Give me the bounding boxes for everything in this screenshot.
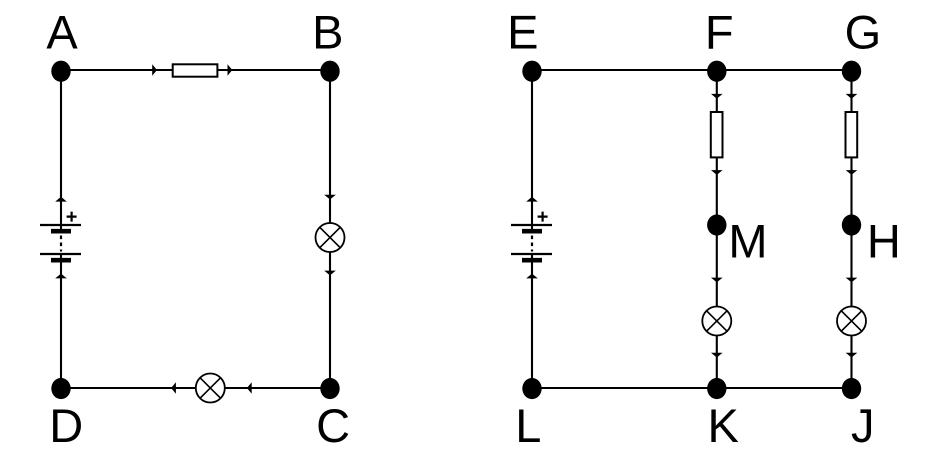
svg-text:H: H [867,215,901,268]
current arrow H-to-lamp4 [846,278,858,283]
lamp L3 (middle branch) [702,307,731,336]
svg-text:G: G [845,6,882,59]
wire battery-L left lower [531,253,533,388]
svg-text:M: M [728,215,767,268]
node H [842,214,861,235]
svg-text:D: D [49,399,83,452]
node E [522,61,541,82]
node J [842,378,861,399]
wire A-battery left upper [60,70,62,232]
svg-text:C: C [316,399,350,452]
current arrow C-to-lamp2 [247,382,252,394]
resistor R1 (top wire) [173,64,218,76]
wire battery-D left lower [60,253,62,388]
battery B2 (left wire) [511,212,552,261]
current arrow lamp3-to-K [711,353,723,358]
current arrow battery2-up-top [526,197,538,202]
wire L-J bottom [532,387,852,389]
node C [320,378,339,399]
wire A-B top [61,69,330,71]
current arrow lamp2-to-D [171,382,176,394]
current arrow battery1-up-bottom [55,274,67,279]
node D [51,378,70,399]
current arrow A-to-R1 [152,64,157,76]
current arrow F-down [711,94,723,99]
battery B1 (left wire) [40,212,81,261]
wire E-G top [532,69,852,71]
resistor R2 (middle branch) [711,112,723,157]
node G [842,61,861,82]
wire B-C right [329,70,331,388]
current arrow R2-to-M [711,170,723,175]
lamp L4 (right branch) [837,307,866,336]
node F [707,61,726,82]
current arrow G-down [846,94,858,99]
node L [522,378,541,399]
lamp L2 (bottom wire) [196,374,225,403]
node B [320,61,339,82]
current arrow battery2-up-bottom [526,274,538,279]
current arrow lamp-to-C [324,271,336,276]
current arrow B-down [324,195,336,200]
resistor R3 (right branch) [846,112,858,157]
svg-text:B: B [312,6,343,59]
current arrow M-to-lamp3 [711,278,723,283]
svg-text:F: F [705,6,734,59]
current arrow R3-to-H [846,170,858,175]
svg-text:E: E [507,6,538,59]
current arrow lamp4-to-J [846,353,858,358]
current arrow R1-to-B [228,64,233,76]
svg-text:L: L [515,399,541,452]
node K [707,378,726,399]
lamp L1 (right wire) [316,223,345,252]
node A [51,61,70,82]
node M [707,214,726,235]
svg-text:K: K [708,399,739,452]
current arrow battery1-up-top [55,197,67,202]
wire C-D bottom [61,387,330,389]
svg-text:A: A [46,6,78,59]
svg-text:J: J [851,399,875,452]
wire F-K middle branch [716,70,718,388]
wire G-J right branch [850,70,852,388]
wire E-battery left upper [531,70,533,232]
